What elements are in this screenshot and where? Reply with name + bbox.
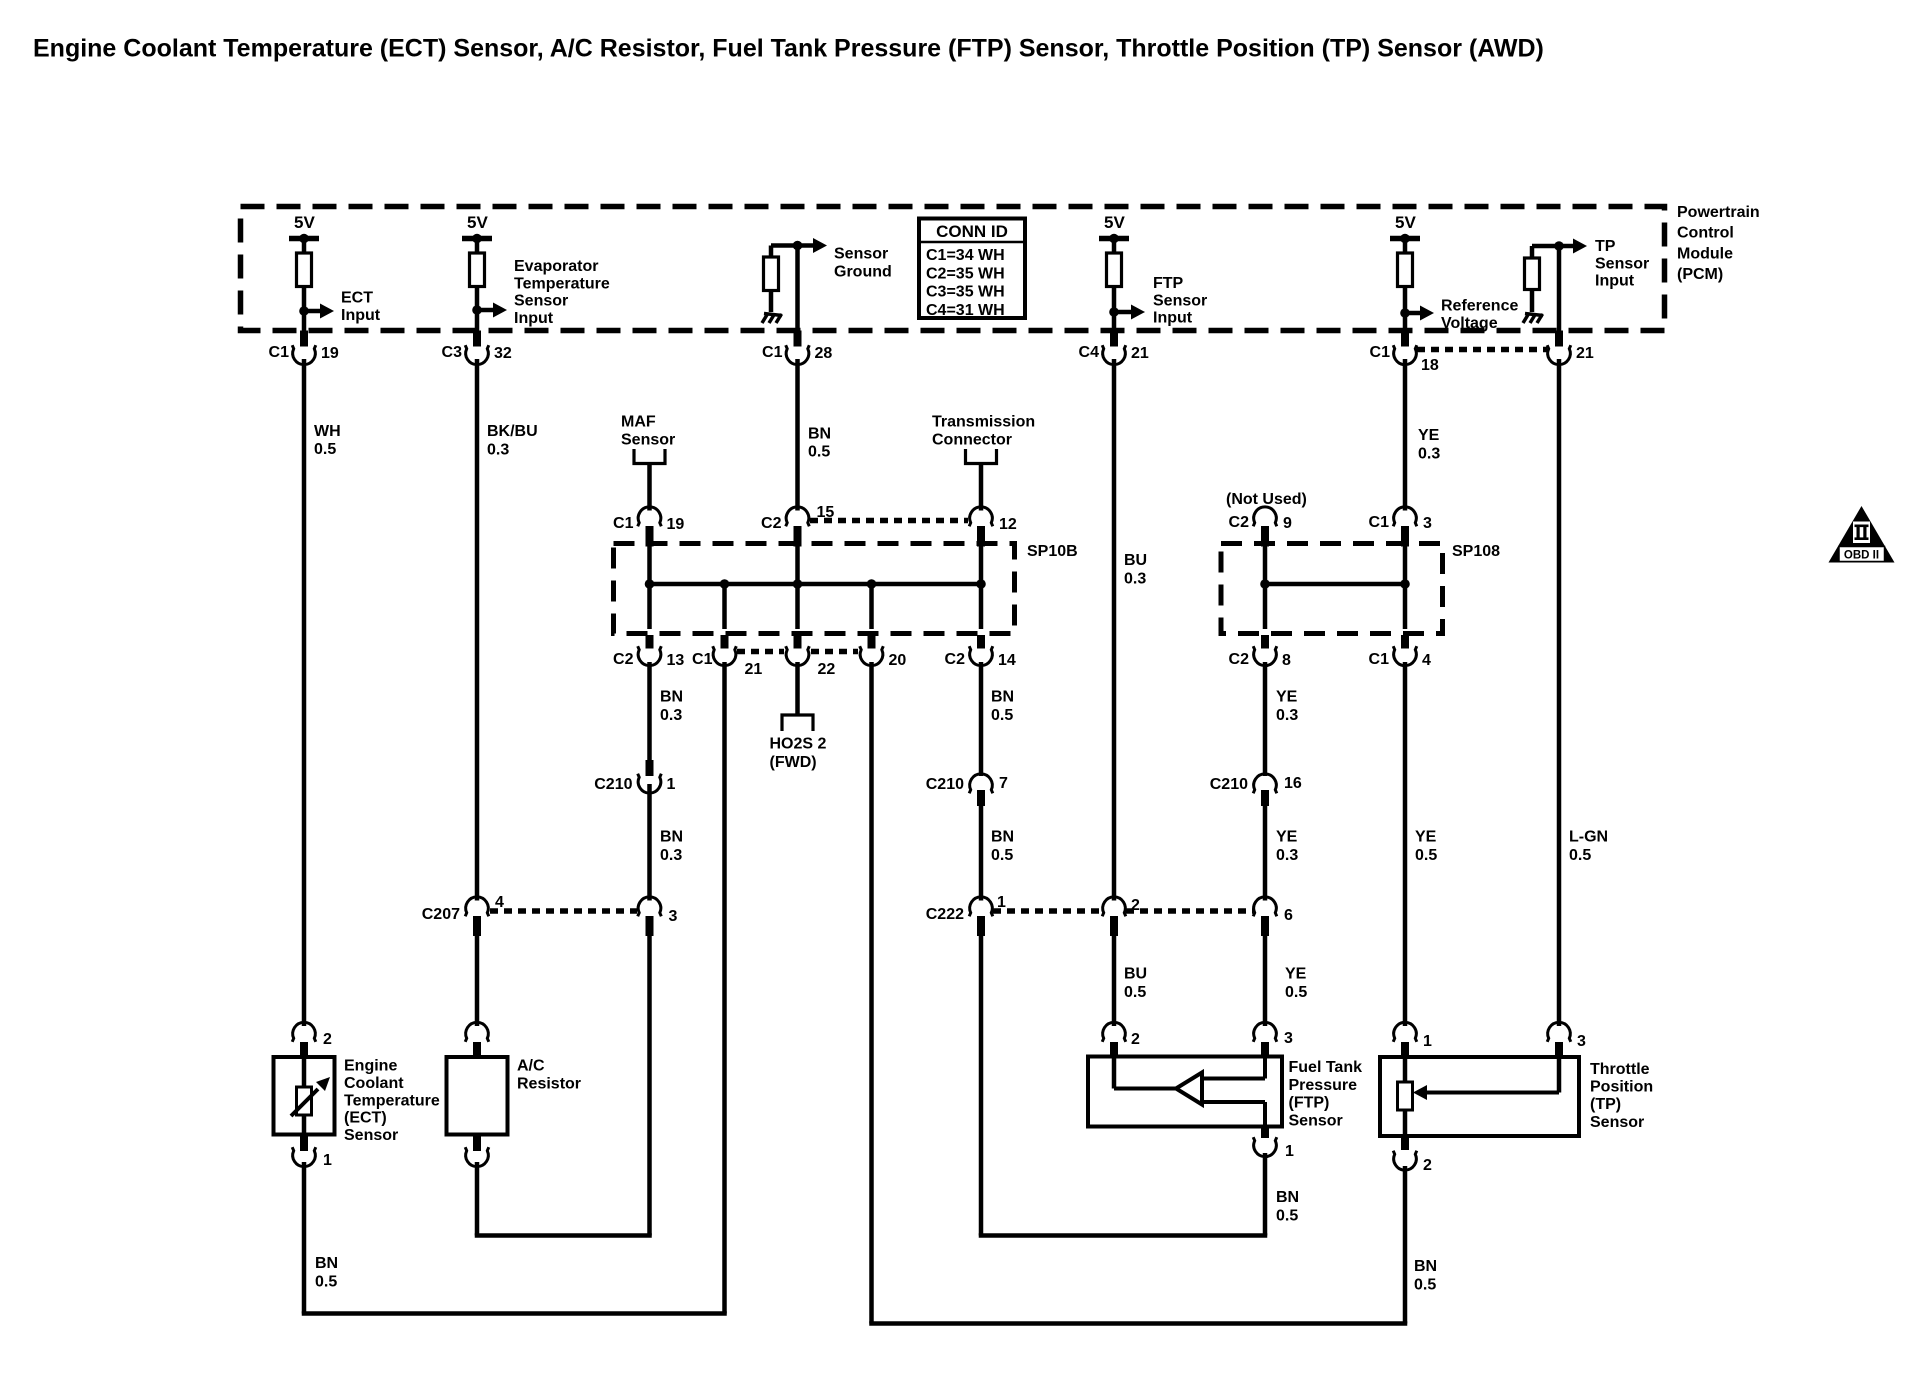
svg-text:20: 20 <box>889 652 907 669</box>
connector C1 pin 19 (PCM ECT input) <box>269 331 339 365</box>
pull-up resistor (FTP) <box>1107 253 1122 287</box>
dashed connector face C222 2-6 <box>1126 908 1253 914</box>
svg-text:0.3: 0.3 <box>660 707 682 724</box>
wire label YE 0.5 <box>1415 829 1437 865</box>
pull-up resistor (TP) <box>1398 253 1413 287</box>
svg-text:Sensor: Sensor <box>1289 1112 1343 1129</box>
svg-text:WH: WH <box>314 423 341 440</box>
svg-text:19: 19 <box>321 345 339 362</box>
svg-text:5V: 5V <box>1104 213 1125 232</box>
wire <box>1200 1057 1265 1079</box>
wire BN 0.5 (sensor gnd) <box>795 359 800 511</box>
svg-text:YE: YE <box>1418 427 1440 444</box>
sensor-ground resistor <box>764 257 779 291</box>
svg-text:C2: C2 <box>613 651 634 668</box>
svg-text:Powertrain: Powertrain <box>1677 204 1760 221</box>
svg-text:Input: Input <box>1153 310 1193 327</box>
svg-text:0.3: 0.3 <box>660 847 682 864</box>
TP wiper arrow <box>1413 1085 1427 1100</box>
connector A/C resistor bottom <box>465 1135 489 1167</box>
Reference Voltage arrow <box>1405 298 1518 332</box>
wire <box>647 584 652 629</box>
wire <box>722 584 727 629</box>
node FTP input junction <box>1109 307 1119 317</box>
connector ECT pin 2 <box>292 1022 332 1057</box>
svg-text:Position: Position <box>1590 1079 1653 1096</box>
pin number 18 <box>1421 357 1439 374</box>
svg-text:Transmission: Transmission <box>932 414 1035 431</box>
svg-text:Sensor: Sensor <box>514 293 568 310</box>
svg-text:BU: BU <box>1124 552 1147 569</box>
wire YE 0.3 (lower) <box>1263 804 1268 901</box>
svg-text:Sensor: Sensor <box>1590 1114 1644 1131</box>
svg-text:0.5: 0.5 <box>1276 1208 1298 1225</box>
svg-text:12: 12 <box>999 516 1017 533</box>
svg-text:CONN ID: CONN ID <box>936 222 1008 241</box>
svg-text:SP10B: SP10B <box>1027 543 1078 560</box>
label Engine Coolant Temperature (ECT) Sensor <box>344 1058 440 1145</box>
wire L-GN 0.5 (TP input) <box>1557 359 1562 1026</box>
pin number 21 <box>745 661 763 678</box>
svg-text:0.3: 0.3 <box>1124 571 1146 588</box>
svg-text:3: 3 <box>1577 1033 1586 1050</box>
svg-text:BN: BN <box>991 829 1014 846</box>
connector pin 21 (PCM TP sensor input) <box>1547 331 1594 365</box>
node ECT input junction <box>299 306 309 316</box>
pin number 22 <box>818 661 836 678</box>
splice SP108 bus <box>1265 582 1405 587</box>
svg-text:Evaporator: Evaporator <box>514 258 598 275</box>
svg-text:Reference: Reference <box>1441 298 1518 315</box>
svg-text:Resistor: Resistor <box>517 1076 581 1093</box>
svg-text:Control: Control <box>1677 225 1734 242</box>
wire BN 0.3 <box>647 662 652 760</box>
connector C4 pin 21 (PCM FTP input) <box>1079 331 1149 365</box>
svg-text:6: 6 <box>1284 907 1293 924</box>
svg-text:5V: 5V <box>1395 213 1416 232</box>
svg-text:22: 22 <box>818 661 836 678</box>
wire <box>1424 1057 1559 1093</box>
svg-text:C210: C210 <box>594 776 632 793</box>
svg-text:C210: C210 <box>1210 776 1248 793</box>
Transmission Connector label <box>932 414 1035 449</box>
svg-text:OBD II: OBD II <box>1844 550 1879 562</box>
svg-text:C207: C207 <box>422 906 460 923</box>
connector C2 pin 9 (not used) <box>1229 507 1292 547</box>
svg-text:C4: C4 <box>1079 344 1100 361</box>
label SP10B <box>1027 543 1078 560</box>
connector C222 pin 1 <box>926 894 1006 936</box>
svg-text:14: 14 <box>998 652 1016 669</box>
svg-text:Engine Coolant Temperature (EC: Engine Coolant Temperature (ECT) Sensor,… <box>33 35 1544 63</box>
wire label WH 0.5 <box>314 423 341 458</box>
svg-text:19: 19 <box>667 516 685 533</box>
svg-text:C2: C2 <box>1229 651 1250 668</box>
PCM label <box>1677 204 1760 283</box>
svg-text:0.5: 0.5 <box>808 444 830 461</box>
splice SP10B dashed box <box>614 544 1015 634</box>
svg-text:21: 21 <box>1131 345 1149 362</box>
svg-text:(ECT): (ECT) <box>344 1110 387 1127</box>
pull-up resistor (ECT) <box>297 253 312 287</box>
connector C210 pin 16 <box>1210 774 1302 806</box>
splice junction <box>645 579 655 589</box>
wire label YE 0.5 <box>1285 966 1307 1002</box>
wire label BN 0.3 <box>660 829 683 865</box>
wire <box>1532 246 1559 258</box>
wire YE 0.3 (TP) <box>1403 359 1408 511</box>
svg-text:SP108: SP108 <box>1452 543 1500 560</box>
svg-text:1: 1 <box>1423 1033 1432 1050</box>
splice junction <box>1260 579 1270 589</box>
pull-up resistor (Evap) <box>470 253 485 287</box>
svg-text:0.5: 0.5 <box>314 441 336 458</box>
Evaporator Temperature Sensor Input arrow <box>477 258 610 327</box>
splice junction <box>1400 579 1410 589</box>
svg-text:TP: TP <box>1595 238 1616 255</box>
wire (bottom right horizontal) <box>869 1321 1407 1326</box>
TP sensor box <box>1380 1057 1579 1136</box>
svg-text:0.5: 0.5 <box>1414 1277 1436 1294</box>
svg-text:C1: C1 <box>613 515 634 532</box>
wire <box>979 584 984 629</box>
wire <box>771 246 798 258</box>
wire YE 0.5 <box>1263 936 1268 1026</box>
svg-text:2: 2 <box>323 1031 332 1048</box>
svg-text:0.5: 0.5 <box>1569 847 1591 864</box>
wire BU 0.3 (FTP) <box>1112 359 1117 901</box>
svg-text:YE: YE <box>1276 829 1298 846</box>
ECT Input arrow <box>304 290 381 324</box>
svg-text:Pressure: Pressure <box>1289 1077 1358 1094</box>
svg-text:0.3: 0.3 <box>1418 446 1440 463</box>
svg-text:Module: Module <box>1677 245 1733 262</box>
splice junction <box>793 579 803 589</box>
svg-text:0.5: 0.5 <box>991 707 1013 724</box>
5V supply (FTP) <box>1099 213 1129 253</box>
svg-text:MAF: MAF <box>621 414 656 431</box>
svg-text:L-GN: L-GN <box>1569 829 1608 846</box>
wire <box>1263 544 1268 630</box>
connector C1 pin 22 <box>786 635 810 666</box>
svg-text:21: 21 <box>745 661 763 678</box>
connector C1 pin 18 (PCM reference voltage) <box>1370 331 1417 365</box>
splice junction <box>976 579 986 589</box>
svg-text:1: 1 <box>667 776 676 793</box>
wire label BU 0.3 (lower) <box>1124 552 1147 588</box>
svg-text:Input: Input <box>1595 273 1635 290</box>
wire <box>869 584 874 629</box>
wire <box>1403 1110 1408 1136</box>
svg-text:0.3: 0.3 <box>1276 707 1298 724</box>
wire (C207-3 loop) <box>647 936 652 1236</box>
connector C2 pin 14 <box>945 635 1016 669</box>
svg-text:C2: C2 <box>761 515 782 532</box>
node Evap input junction <box>472 305 482 315</box>
svg-text:1: 1 <box>323 1152 332 1169</box>
wire label BK/BU 0.3 <box>487 423 538 459</box>
svg-text:BN: BN <box>660 829 683 846</box>
label (Not Used) <box>1226 491 1307 508</box>
svg-text:Engine: Engine <box>344 1058 397 1075</box>
svg-text:C210: C210 <box>926 776 964 793</box>
svg-text:(TP): (TP) <box>1590 1096 1621 1113</box>
svg-text:Temperature: Temperature <box>514 275 610 292</box>
connector pin 12 (transmission) <box>969 507 1017 547</box>
svg-text:C3: C3 <box>442 344 463 361</box>
svg-text:9: 9 <box>1283 515 1292 532</box>
5V supply (TP) <box>1390 213 1420 253</box>
wire YE 0.5 (C1-4 to TP) <box>1403 662 1408 1026</box>
connector ECT pin 1 <box>292 1135 332 1170</box>
svg-text:C3=35 WH: C3=35 WH <box>926 284 1005 301</box>
svg-text:Sensor: Sensor <box>1595 255 1649 272</box>
connector C2 pin 15 <box>761 504 834 547</box>
wire label BN 0.3 <box>660 689 683 725</box>
wire WH 0.5 (ECT) <box>302 359 307 1026</box>
svg-text:32: 32 <box>494 345 512 362</box>
dashed connector face C1 18-21 <box>1417 347 1547 353</box>
dashed connector face C222 1-2 <box>993 908 1102 914</box>
transmission connector bracket <box>966 449 997 464</box>
wire <box>979 544 984 585</box>
svg-text:BN: BN <box>1276 1189 1299 1206</box>
wire <box>1530 290 1535 313</box>
svg-text:0.5: 0.5 <box>1285 984 1307 1001</box>
svg-text:28: 28 <box>815 345 833 362</box>
dashed connector face C1 22-20 <box>811 649 858 655</box>
dashed connector face C2 15-12 <box>810 518 968 524</box>
wire label BN 0.5 <box>808 426 831 461</box>
svg-text:5V: 5V <box>294 213 315 232</box>
MAF Sensor label <box>621 414 675 449</box>
svg-text:5V: 5V <box>467 213 488 232</box>
svg-text:3: 3 <box>669 908 678 925</box>
PCM module dashed outline <box>241 207 1665 331</box>
wire label L-GN 0.5 <box>1569 829 1608 865</box>
wire BN 0.5 (TP ground) <box>1403 1166 1408 1324</box>
ECT sensor box <box>274 1057 335 1135</box>
connector C207 pin 4 <box>422 894 504 936</box>
wire BN 0.3 (lower) <box>647 784 652 901</box>
svg-text:Input: Input <box>341 307 381 324</box>
connector C1 pin 21 <box>713 635 737 666</box>
node TP input junction <box>1554 241 1564 251</box>
svg-text:C1: C1 <box>1369 514 1390 531</box>
wire (evap to A/C resistor) <box>475 936 480 1026</box>
wire label BN 0.5 <box>991 689 1014 725</box>
svg-text:C2: C2 <box>945 651 966 668</box>
CONN ID table <box>919 219 1025 319</box>
connector C207 pin 3 <box>638 897 678 936</box>
svg-text:2: 2 <box>1131 1031 1140 1048</box>
svg-text:18: 18 <box>1421 357 1439 374</box>
connector C1 pin 28 (PCM sensor ground) <box>762 331 832 365</box>
title text <box>33 35 1544 63</box>
ECT thermistor element <box>297 1087 312 1115</box>
splice SP108 dashed box <box>1221 544 1443 634</box>
wire label BN 0.5 (TP) <box>1414 1258 1437 1294</box>
svg-text:C4=31 WH: C4=31 WH <box>926 302 1005 319</box>
FTP Sensor Input arrow <box>1114 275 1207 327</box>
connector TP pin 1 <box>1393 1022 1432 1057</box>
svg-text:YE: YE <box>1415 829 1437 846</box>
wire <box>979 464 984 511</box>
wire <box>302 287 307 331</box>
svg-text:BN: BN <box>315 1255 338 1272</box>
svg-text:3: 3 <box>1284 1030 1293 1047</box>
svg-text:BN: BN <box>808 426 831 443</box>
svg-text:7: 7 <box>999 775 1008 792</box>
svg-text:0.5: 0.5 <box>1124 984 1146 1001</box>
svg-text:8: 8 <box>1282 652 1291 669</box>
ECT variable arrow <box>291 1077 330 1116</box>
svg-text:FTP: FTP <box>1153 275 1184 292</box>
svg-text:Fuel Tank: Fuel Tank <box>1289 1059 1363 1076</box>
wire label BN 0.5 <box>991 829 1014 865</box>
wire <box>1403 544 1408 630</box>
svg-text:C2: C2 <box>1229 514 1250 531</box>
wire (A/C loop horizontal) <box>475 1233 652 1238</box>
svg-text:C222: C222 <box>926 906 964 923</box>
wire label BN 0.5 <box>315 1255 338 1291</box>
wire label BU 0.5 <box>1124 966 1147 1002</box>
wire YE 0.3 <box>1263 662 1268 776</box>
wire label YE 0.3 <box>1276 829 1298 865</box>
svg-text:C2=35 WH: C2=35 WH <box>926 265 1005 282</box>
svg-text:A/C: A/C <box>517 1058 545 1075</box>
MAF sensor bracket <box>634 449 665 464</box>
wire <box>795 246 800 331</box>
connector C1 pin 4 <box>1369 635 1431 669</box>
ground (TP input internal) <box>1523 314 1543 324</box>
svg-text:C1: C1 <box>1369 651 1390 668</box>
connector FTP pin 2 <box>1102 1022 1140 1056</box>
HO2S 2 (FWD) bracket <box>782 715 813 731</box>
svg-text:Connector: Connector <box>932 432 1012 449</box>
A/C resistor box <box>447 1057 508 1135</box>
wire <box>1403 287 1408 331</box>
wire (pin 20 to bottom) <box>869 662 874 1324</box>
svg-text:0.5: 0.5 <box>315 1274 337 1291</box>
5V supply (Evap) <box>462 213 492 253</box>
svg-text:BN: BN <box>660 689 683 706</box>
splice SP10B bus <box>650 582 982 587</box>
wire <box>769 291 774 313</box>
node reference voltage junction <box>1400 308 1410 318</box>
svg-text:16: 16 <box>1284 775 1302 792</box>
wire <box>1557 246 1562 331</box>
connector C210 pin 1 <box>594 760 675 793</box>
svg-text:Voltage: Voltage <box>1441 315 1498 332</box>
connector C1 pin 19 (MAF) <box>613 507 684 547</box>
svg-text:YE: YE <box>1276 689 1298 706</box>
wire BN 0.5 (ECT ground) <box>302 1162 307 1314</box>
wire <box>302 1057 307 1087</box>
svg-text:YE: YE <box>1285 966 1307 983</box>
svg-text:C1: C1 <box>269 344 290 361</box>
dashed connector face C207 4-3 <box>490 908 637 914</box>
connector C2 pin 13 <box>613 635 684 669</box>
OBD II symbol <box>1829 506 1895 563</box>
connector C1 pin 3 <box>1369 507 1432 547</box>
svg-text:0.3: 0.3 <box>1276 847 1298 864</box>
FTP transducer symbol <box>1176 1073 1202 1105</box>
connector FTP pin 1 <box>1253 1127 1294 1161</box>
svg-text:2: 2 <box>1423 1157 1432 1174</box>
node sensor ground junction <box>793 241 803 251</box>
splice junction <box>867 579 877 589</box>
connector C3 pin 32 (PCM evap temp input) <box>442 331 512 365</box>
svg-text:C1: C1 <box>762 344 783 361</box>
svg-text:Sensor: Sensor <box>621 432 675 449</box>
wire <box>795 584 800 629</box>
wire (A/C bottom lead) <box>475 1162 480 1236</box>
wire <box>647 544 652 585</box>
Sensor Ground arrow <box>798 238 892 280</box>
connector C2 pin 8 <box>1229 635 1291 669</box>
TP potentiometer element <box>1398 1082 1413 1110</box>
wire (FTP pin1 lead) <box>1263 1153 1268 1236</box>
connector A/C resistor top <box>465 1022 489 1057</box>
svg-text:HO2S 2: HO2S 2 <box>770 736 827 753</box>
TP-input resistor <box>1525 258 1540 290</box>
wire BU 0.5 <box>1112 936 1117 1026</box>
FTP sensor box <box>1088 1057 1282 1127</box>
connector FTP pin 3 <box>1253 1022 1293 1056</box>
connector C210 pin 7 <box>926 774 1008 806</box>
dashed connector face C1 21-22 <box>737 649 784 655</box>
5V supply (ECT) <box>289 213 319 253</box>
svg-text:Input: Input <box>514 310 554 327</box>
label C1 (pin 21) <box>692 651 713 668</box>
svg-text:Throttle: Throttle <box>1590 1061 1650 1078</box>
wire <box>1403 1057 1408 1082</box>
wire <box>475 287 480 331</box>
svg-text:Sensor: Sensor <box>344 1127 398 1144</box>
connector C222 pin 2 <box>1102 897 1140 936</box>
svg-text:BK/BU: BK/BU <box>487 423 538 440</box>
ground (PCM internal) <box>762 314 782 324</box>
connector C1 pin 20 <box>860 635 907 669</box>
wire (bottom left horizontal) <box>302 1311 727 1316</box>
svg-text:C1: C1 <box>1370 344 1391 361</box>
wire <box>795 544 800 585</box>
svg-text:(FTP): (FTP) <box>1289 1095 1330 1112</box>
connector C222 pin 6 <box>1253 897 1293 936</box>
svg-text:Coolant: Coolant <box>344 1075 404 1092</box>
wire <box>1112 287 1117 331</box>
svg-text:1: 1 <box>1285 1143 1294 1160</box>
svg-text:(PCM): (PCM) <box>1677 266 1723 283</box>
wire label YE 0.3 <box>1276 689 1298 725</box>
svg-text:Sensor: Sensor <box>1153 292 1207 309</box>
svg-text:0.5: 0.5 <box>991 847 1013 864</box>
svg-text:C1=34 WH: C1=34 WH <box>926 247 1005 264</box>
wire <box>1200 1102 1265 1127</box>
svg-text:3: 3 <box>1423 515 1432 532</box>
label SP108 <box>1452 543 1500 560</box>
splice junction <box>720 579 730 589</box>
connector TP pin 3 <box>1547 1022 1586 1057</box>
svg-text:13: 13 <box>667 652 685 669</box>
label HO2S 2 (FWD) <box>770 736 827 772</box>
svg-text:Ground: Ground <box>834 263 892 280</box>
connector TP pin 2 <box>1393 1136 1432 1174</box>
label Fuel Tank Pressure (FTP) Sensor <box>1289 1059 1363 1129</box>
label A/C Resistor <box>517 1058 581 1093</box>
wire <box>302 1115 307 1135</box>
